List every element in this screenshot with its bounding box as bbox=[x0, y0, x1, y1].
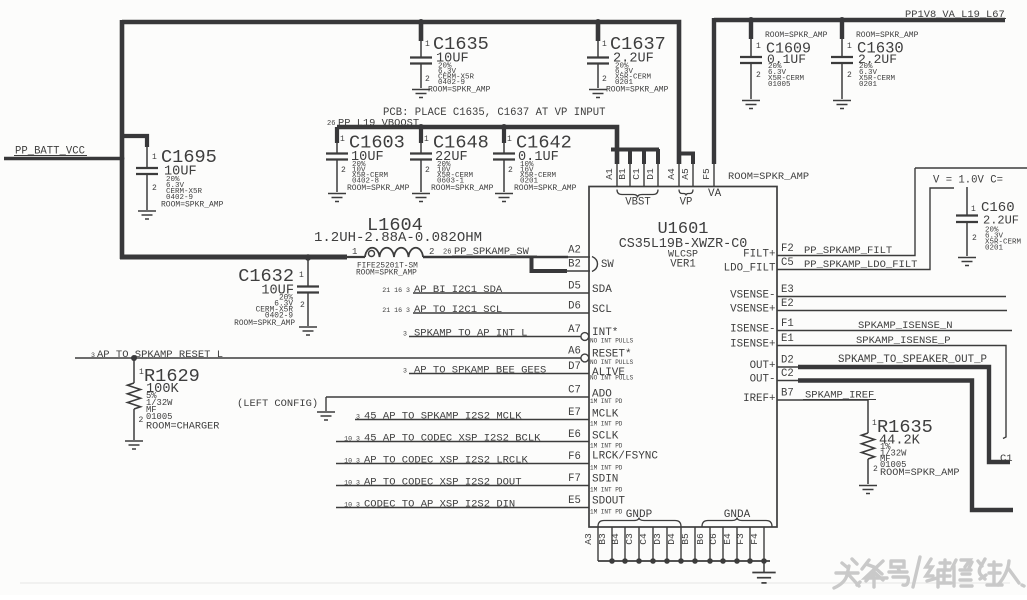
svg-text:10 3: 10 3 bbox=[344, 457, 360, 464]
svg-text:10 3: 10 3 bbox=[344, 479, 360, 486]
svg-text:LDO_FILT: LDO_FILT bbox=[724, 262, 776, 274]
wire net SPKAMP_IREF bbox=[777, 399, 868, 401]
wire net SPKAMP_ISENSE_P bbox=[777, 346, 1006, 439]
pin F4 bbox=[763, 527, 765, 561]
pin B5 bbox=[694, 527, 696, 561]
wire net 45_AP_TO_SPKAMP_I2S2_MCLK bbox=[355, 419, 589, 421]
svg-text:ROOM=SPKR_AMP: ROOM=SPKR_AMP bbox=[514, 184, 577, 193]
node junction bottom bus bbox=[609, 558, 615, 564]
node junction bottom bus bbox=[650, 558, 656, 564]
pin F3 bbox=[749, 527, 751, 561]
resistor R1635 bbox=[867, 400, 869, 433]
node junction bottom bus bbox=[664, 558, 670, 564]
svg-text:F2: F2 bbox=[781, 243, 794, 255]
svg-text:2: 2 bbox=[341, 166, 346, 175]
wire net CODEC_TO_AP_XSP_I2S2_DIN bbox=[336, 507, 589, 509]
ground for C1695 bbox=[138, 211, 156, 219]
svg-text:01005: 01005 bbox=[768, 81, 791, 89]
svg-text:2: 2 bbox=[602, 75, 607, 84]
wire net VSENSE+ E2 bbox=[777, 310, 1007, 312]
svg-text:AP_BI_I2C1_SDA: AP_BI_I2C1_SDA bbox=[414, 284, 503, 296]
svg-text:A7: A7 bbox=[568, 324, 581, 336]
wire thin lead into pin A2 bbox=[566, 256, 590, 258]
wire net SPKAMP_TO_AP_INT_L bbox=[409, 336, 581, 338]
node junction bottom bus bbox=[734, 558, 740, 564]
brace SW bbox=[592, 257, 598, 272]
svg-text:3: 3 bbox=[356, 413, 360, 420]
svg-text:AP_TO_CODEC_XSP_I2S2_DOUT: AP_TO_CODEC_XSP_I2S2_DOUT bbox=[364, 476, 522, 488]
svg-text:C1: C1 bbox=[631, 168, 642, 180]
svg-text:45_AP_TO_SPKAMP_I2S2_MCLK: 45_AP_TO_SPKAMP_I2S2_MCLK bbox=[364, 410, 522, 422]
pin B4 bbox=[624, 527, 626, 561]
svg-text:ISENSE-: ISENSE- bbox=[730, 323, 775, 335]
svg-text:SDIN: SDIN bbox=[592, 474, 618, 486]
svg-text:1: 1 bbox=[971, 205, 976, 214]
svg-text:26: 26 bbox=[327, 120, 335, 128]
svg-text:2: 2 bbox=[152, 184, 157, 193]
ground for R1635 bbox=[859, 486, 877, 494]
pin D4 bbox=[680, 527, 682, 561]
svg-text:NO INT PULLS: NO INT PULLS bbox=[590, 337, 634, 344]
wire thin stub pin B1 bbox=[629, 163, 631, 187]
svg-text:1M INT PD: 1M INT PD bbox=[590, 486, 623, 493]
svg-text:E5: E5 bbox=[568, 495, 581, 507]
svg-text:1: 1 bbox=[424, 135, 429, 144]
wire F4 to ground bbox=[763, 561, 765, 572]
wire VP rail from PP_BATT_VCC corner to A4/A5 pins bbox=[122, 22, 679, 164]
svg-text:3: 3 bbox=[403, 330, 407, 337]
svg-text:SW: SW bbox=[601, 259, 614, 271]
svg-text:CODEC_TO_AP_XSP_I2S2_DIN: CODEC_TO_AP_XSP_I2S2_DIN bbox=[364, 498, 515, 510]
svg-text:1: 1 bbox=[152, 153, 157, 162]
wire net PP_SPKAMP_FILT bbox=[777, 168, 915, 256]
svg-text:B3: B3 bbox=[597, 533, 608, 545]
svg-text:OUT+: OUT+ bbox=[750, 360, 776, 372]
pin E4 bbox=[736, 527, 738, 561]
svg-text:AP_TO_CODEC_XSP_I2S2_LRCLK: AP_TO_CODEC_XSP_I2S2_LRCLK bbox=[364, 454, 529, 466]
svg-text:2: 2 bbox=[300, 301, 305, 310]
capacitor C1632 bbox=[307, 259, 309, 287]
svg-text:E4: E4 bbox=[722, 533, 733, 545]
pin A3 bbox=[597, 527, 599, 561]
svg-text:B2: B2 bbox=[568, 259, 581, 271]
svg-text:E3: E3 bbox=[781, 284, 794, 296]
ground for right capacitor bbox=[958, 258, 976, 266]
svg-text:SPKAMP_ISENSE_N: SPKAMP_ISENSE_N bbox=[858, 320, 953, 332]
capacitor C1603 bbox=[335, 127, 339, 143]
svg-text:C7: C7 bbox=[568, 385, 581, 397]
svg-text:D5: D5 bbox=[568, 281, 581, 293]
svg-text:0201: 0201 bbox=[859, 81, 878, 89]
node PP_L19_VBOOST rail bbox=[337, 127, 617, 164]
wire net VSENSE- E3 bbox=[777, 296, 1006, 298]
ground for C1637 bbox=[589, 90, 607, 98]
wire bottom ground bus bbox=[598, 560, 770, 562]
node junction C1632 tap bbox=[305, 254, 311, 260]
svg-text:2.2UF: 2.2UF bbox=[983, 214, 1019, 228]
svg-text:1: 1 bbox=[507, 135, 512, 144]
svg-text:ISENSE+: ISENSE+ bbox=[730, 338, 775, 350]
svg-text:1: 1 bbox=[299, 271, 304, 280]
svg-text:1: 1 bbox=[352, 247, 357, 257]
wire net 45_AP_TO_CODEC_XSP_I2S2_BCLK bbox=[336, 441, 589, 443]
svg-text:LRCK/FSYNC: LRCK/FSYNC bbox=[592, 451, 658, 463]
ground for ADO strap bbox=[317, 412, 335, 420]
svg-text:21 16 3: 21 16 3 bbox=[382, 307, 410, 314]
svg-text:E2: E2 bbox=[781, 298, 794, 310]
ground for C1632 bbox=[299, 327, 317, 335]
capacitor C1609 bbox=[749, 20, 753, 39]
pin D3 bbox=[666, 527, 668, 561]
svg-text:ROOM=SPKR_AMP: ROOM=SPKR_AMP bbox=[431, 184, 494, 193]
wire net AP_TO_SPKAMP_RESET_L bbox=[75, 357, 581, 359]
wire PP_BATT_VCC bbox=[4, 157, 124, 161]
capacitor C1637 bbox=[596, 22, 601, 41]
brace GNDA group bbox=[702, 518, 772, 527]
wire net speaker OUT- from C2 bbox=[777, 380, 800, 382]
svg-text:VP: VP bbox=[680, 197, 693, 209]
svg-text:VSENSE-: VSENSE- bbox=[730, 289, 775, 301]
wire net AP_TO_CODEC_XSP_I2S2_DOUT bbox=[336, 485, 589, 487]
svg-text:1: 1 bbox=[847, 42, 852, 51]
svg-text:ROOM=SPKR_AMP: ROOM=SPKR_AMP bbox=[880, 468, 959, 479]
svg-text:A1: A1 bbox=[604, 168, 615, 180]
svg-text:2: 2 bbox=[425, 75, 430, 84]
ground for C1630 bbox=[833, 101, 851, 109]
wire net ADO (LEFT CONFIG) bbox=[326, 396, 589, 398]
capacitor C1635 bbox=[419, 22, 424, 41]
node junction bottom bus bbox=[720, 558, 726, 564]
svg-text:SPKAMP_ISENSE_P: SPKAMP_ISENSE_P bbox=[856, 335, 951, 347]
node junction bottom bus bbox=[707, 558, 713, 564]
svg-text:ROOM=CHARGER: ROOM=CHARGER bbox=[146, 422, 219, 433]
wire left vertical PP_BATT_VCC bus bbox=[120, 20, 125, 259]
resistor R1629 bbox=[131, 355, 137, 361]
svg-text:MCLK: MCLK bbox=[592, 409, 619, 421]
svg-text:1: 1 bbox=[340, 135, 345, 144]
svg-text:A2: A2 bbox=[568, 245, 581, 257]
svg-text:C3: C3 bbox=[624, 533, 635, 545]
svg-text:E7: E7 bbox=[568, 407, 581, 419]
wire inductor lead pin 1 bbox=[345, 256, 365, 258]
wire net SPKAMP_ISENSE_N bbox=[777, 330, 1012, 332]
svg-text:VER1: VER1 bbox=[670, 259, 695, 271]
wire net AP_TO_I2C1_SCL bbox=[413, 312, 589, 314]
svg-text:FILT+: FILT+ bbox=[743, 248, 775, 260]
wire VP bar to pin A5 bbox=[677, 154, 693, 165]
svg-text:IREF+: IREF+ bbox=[743, 393, 775, 405]
svg-text:3: 3 bbox=[403, 367, 407, 374]
svg-text:C5: C5 bbox=[781, 257, 794, 269]
svg-text:ROOM=SPKR_AMP: ROOM=SPKR_AMP bbox=[765, 31, 828, 40]
ground for C1609 bbox=[742, 101, 760, 109]
ground for C1635 bbox=[412, 90, 430, 98]
svg-text:2: 2 bbox=[972, 234, 977, 243]
node junction bottom bus bbox=[636, 558, 642, 564]
wire stub pin D1 bbox=[656, 149, 660, 164]
svg-text:1: 1 bbox=[602, 40, 607, 49]
op-amp U1601 CS35L19B amplifier body bbox=[589, 187, 777, 528]
svg-text:ROOM=SPKR_AMP: ROOM=SPKR_AMP bbox=[606, 86, 669, 95]
node junction bottom bus bbox=[678, 558, 684, 564]
svg-text:2: 2 bbox=[756, 71, 761, 80]
wire thin lead into pin B2 bbox=[566, 270, 590, 272]
svg-text:1M INT PD: 1M INT PD bbox=[590, 464, 623, 471]
inductor L1604 bbox=[365, 248, 423, 257]
svg-text:F3: F3 bbox=[735, 533, 746, 545]
svg-text:B4: B4 bbox=[610, 533, 621, 545]
pin C6 bbox=[722, 527, 724, 561]
svg-text:OUT-: OUT- bbox=[750, 373, 776, 385]
svg-text:V = 1.0V C=: V = 1.0V C= bbox=[933, 175, 1003, 187]
svg-text:NO INT PULLS: NO INT PULLS bbox=[590, 359, 634, 366]
svg-text:C1: C1 bbox=[1000, 453, 1013, 465]
svg-text:10 3: 10 3 bbox=[344, 501, 360, 508]
svg-text:E1: E1 bbox=[781, 333, 794, 345]
svg-text:B6: B6 bbox=[695, 533, 706, 545]
node junction PP_BATT_VCC to bus bbox=[120, 156, 125, 161]
svg-text:2: 2 bbox=[139, 416, 144, 425]
svg-text:PP1V8_VA_L19_L67: PP1V8_VA_L19_L67 bbox=[905, 9, 1005, 21]
svg-text:ROOM=SPKR_AMP: ROOM=SPKR_AMP bbox=[728, 171, 809, 183]
svg-text:1: 1 bbox=[756, 42, 761, 51]
svg-text:1: 1 bbox=[425, 40, 430, 49]
node junction bottom bus bbox=[761, 558, 767, 564]
pin C3 bbox=[638, 527, 640, 561]
net PP1V8_VA_L19_L67 rail bbox=[714, 18, 1005, 22]
wire net PP_SPKAMP_LDO_FILT bbox=[777, 188, 954, 270]
svg-text:26: 26 bbox=[443, 249, 451, 257]
svg-text:1M INT PD: 1M INT PD bbox=[590, 442, 623, 449]
wire PP_SPKAMP_SW from L1604 pin 2 to pin A2 bbox=[423, 256, 568, 259]
ground for C1648 bbox=[412, 194, 430, 202]
svg-text:SPKAMP_TO_AP_INT_L: SPKAMP_TO_AP_INT_L bbox=[414, 327, 527, 339]
pin B6 bbox=[709, 527, 711, 561]
svg-text:PP_SPKAMP_LDO_FILT: PP_SPKAMP_LDO_FILT bbox=[804, 259, 917, 271]
wire thin stub pin D1 bbox=[657, 163, 659, 187]
svg-text:ROOM=SPKR_AMP: ROOM=SPKR_AMP bbox=[161, 201, 224, 210]
wire thin stub pin C1 bbox=[643, 163, 645, 187]
svg-text:E6: E6 bbox=[568, 429, 581, 441]
capacitor C1668 at right edge bbox=[966, 187, 968, 216]
wire thin stub pin F5 bbox=[713, 163, 715, 187]
svg-text:ROOM=SPKR_AMP: ROOM=SPKR_AMP bbox=[234, 320, 295, 328]
ground for C1642 bbox=[495, 194, 513, 202]
svg-text:3: 3 bbox=[91, 352, 95, 359]
wire net AP_TO_SPKAMP_BEE_GEES bbox=[409, 373, 589, 375]
svg-text:45_AP_TO_CODEC_XSP_I2S2_BCLK: 45_AP_TO_CODEC_XSP_I2S2_BCLK bbox=[364, 432, 541, 444]
svg-text:C2: C2 bbox=[781, 368, 794, 380]
wire thin stub pin A1 bbox=[616, 163, 618, 187]
svg-text:2: 2 bbox=[425, 166, 430, 175]
wire F5 vertical to VA pin bbox=[712, 18, 716, 164]
capacitor C1695 bbox=[122, 136, 147, 147]
svg-text:21 16 3: 21 16 3 bbox=[382, 287, 410, 294]
svg-text:F4: F4 bbox=[749, 533, 760, 545]
svg-text:D4: D4 bbox=[666, 533, 677, 545]
wire stub pin B1 bbox=[628, 149, 632, 164]
svg-text:AP_TO_I2C1_SCL: AP_TO_I2C1_SCL bbox=[414, 304, 502, 316]
capacitor C1648 bbox=[419, 127, 423, 143]
svg-text:2: 2 bbox=[508, 166, 513, 175]
svg-text:NO INT PULLS: NO INT PULLS bbox=[590, 374, 634, 381]
svg-text:VBST: VBST bbox=[625, 197, 650, 209]
wire SW jog down to pin B2 bbox=[532, 257, 568, 271]
svg-text:SDA: SDA bbox=[592, 284, 612, 296]
svg-text:1M INT PD: 1M INT PD bbox=[590, 420, 623, 427]
svg-text:A6: A6 bbox=[568, 346, 581, 358]
svg-text:PP_SPKAMP_FILT: PP_SPKAMP_FILT bbox=[804, 245, 892, 257]
svg-text:D3: D3 bbox=[652, 533, 663, 545]
svg-text:PCB: PLACE C1635, C1637 AT VP: PCB: PLACE C1635, C1637 AT VP INPUT bbox=[383, 107, 606, 119]
pin C4 bbox=[652, 527, 654, 561]
svg-text:1M INT PD: 1M INT PD bbox=[590, 508, 623, 515]
svg-text:ROOM=SPKR_AMP: ROOM=SPKR_AMP bbox=[428, 86, 491, 95]
wire battery bus to inductor L1604 bbox=[120, 255, 347, 260]
svg-text:1.2UH-2.88A-0.082OHM: 1.2UH-2.88A-0.082OHM bbox=[314, 230, 482, 246]
svg-text:1M INT PD: 1M INT PD bbox=[590, 398, 623, 405]
svg-text:F5: F5 bbox=[701, 168, 712, 180]
ground for C1603 bbox=[328, 194, 346, 202]
wire thin stub pin A5 bbox=[692, 163, 694, 187]
node junction bottom bus bbox=[692, 558, 698, 564]
svg-text:A5: A5 bbox=[680, 168, 691, 180]
node junction bottom bus bbox=[622, 558, 628, 564]
svg-text:VSENSE+: VSENSE+ bbox=[730, 303, 775, 315]
svg-text:D7: D7 bbox=[568, 361, 581, 373]
svg-text:B7: B7 bbox=[781, 388, 794, 400]
svg-text:A3: A3 bbox=[583, 533, 594, 545]
note box V = 1.0V bbox=[915, 167, 1027, 169]
wire net SPKAMP_TO_SPEAKER_OUT_P from OUT+ bbox=[777, 366, 800, 368]
svg-text:A4: A4 bbox=[666, 168, 677, 180]
svg-text:2: 2 bbox=[429, 247, 434, 257]
svg-text:F6: F6 bbox=[568, 451, 581, 463]
svg-text:SCLK: SCLK bbox=[592, 431, 619, 443]
svg-text:B1: B1 bbox=[617, 168, 628, 180]
svg-text:AP_TO_SPKAMP_RESET_L: AP_TO_SPKAMP_RESET_L bbox=[97, 349, 223, 361]
svg-text:2: 2 bbox=[847, 71, 852, 80]
svg-text:10 3: 10 3 bbox=[344, 435, 360, 442]
wire VBST bar over pins B1 C1 D1 bbox=[611, 148, 659, 152]
brace GNDP group bbox=[598, 518, 681, 527]
svg-text:2: 2 bbox=[873, 465, 878, 474]
wire stub pin C1 bbox=[642, 149, 646, 164]
watermark toutiao hand strokes bbox=[834, 557, 1024, 588]
svg-text:D1: D1 bbox=[645, 168, 656, 180]
capacitor C1630 bbox=[840, 20, 844, 39]
capacitor C1642 bbox=[502, 127, 506, 143]
ground main below GNDA bbox=[752, 573, 775, 583]
svg-text:0201: 0201 bbox=[985, 245, 1004, 253]
svg-text:F7: F7 bbox=[568, 473, 581, 485]
brace VP group bbox=[679, 190, 693, 196]
svg-text:ROOM=SPKR_AMP: ROOM=SPKR_AMP bbox=[347, 184, 410, 193]
svg-text:ROOM=SPKR_AMP: ROOM=SPKR_AMP bbox=[356, 270, 417, 278]
ground for R1629 bbox=[125, 441, 143, 449]
brace VBST group bbox=[617, 190, 658, 198]
svg-text:D2: D2 bbox=[781, 355, 794, 367]
svg-text:B5: B5 bbox=[680, 533, 691, 545]
svg-text:AP_TO_SPKAMP_BEE_GEES: AP_TO_SPKAMP_BEE_GEES bbox=[414, 364, 546, 376]
svg-text:SDOUT: SDOUT bbox=[592, 496, 625, 508]
node junction bottom bus bbox=[747, 558, 753, 564]
svg-text:F1: F1 bbox=[781, 318, 794, 330]
svg-text:01005: 01005 bbox=[146, 412, 172, 422]
svg-text:SCL: SCL bbox=[592, 304, 612, 316]
svg-text:D6: D6 bbox=[568, 301, 581, 313]
svg-text:SPKAMP_TO_SPEAKER_OUT_P: SPKAMP_TO_SPEAKER_OUT_P bbox=[838, 354, 987, 366]
svg-text:(LEFT CONFIG): (LEFT CONFIG) bbox=[237, 398, 318, 410]
svg-text:VA: VA bbox=[708, 188, 722, 200]
wire thin stub pin A4 bbox=[678, 163, 680, 187]
pin B3 bbox=[611, 527, 613, 561]
wire net AP_TO_CODEC_XSP_I2S2_LRCLK bbox=[336, 463, 589, 465]
wire net AP_BI_I2C1_SDA bbox=[413, 292, 589, 294]
svg-text:C6: C6 bbox=[708, 533, 719, 545]
svg-text:C4: C4 bbox=[638, 533, 649, 545]
